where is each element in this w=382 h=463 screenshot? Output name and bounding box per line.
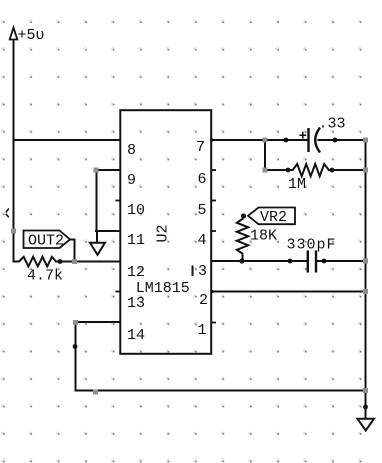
svg-text:7: 7	[196, 139, 205, 156]
svg-text:8: 8	[127, 142, 136, 159]
svg-text:12: 12	[127, 264, 145, 281]
svg-text:2: 2	[199, 292, 208, 309]
svg-text:1M: 1M	[288, 176, 306, 193]
svg-text:11: 11	[127, 232, 145, 249]
svg-text:U2: U2	[155, 224, 172, 242]
svg-text:5: 5	[198, 202, 207, 219]
svg-text:13: 13	[127, 295, 145, 312]
svg-text:4: 4	[198, 232, 207, 249]
svg-text:3: 3	[198, 263, 207, 280]
svg-text:OUT2: OUT2	[28, 233, 64, 250]
svg-text:1: 1	[198, 322, 207, 339]
svg-text:14: 14	[127, 327, 145, 344]
svg-text:10: 10	[127, 202, 145, 219]
svg-text:9: 9	[127, 172, 136, 189]
svg-text:.33: .33	[319, 116, 346, 133]
svg-text:4.7k: 4.7k	[27, 267, 63, 284]
svg-text:6: 6	[198, 171, 207, 188]
svg-text:330pF: 330pF	[287, 237, 337, 254]
svg-text:LM1815: LM1815	[136, 280, 190, 297]
svg-text:18K: 18K	[250, 228, 277, 245]
svg-text:+5υ: +5υ	[18, 27, 45, 44]
svg-text:VR2: VR2	[260, 209, 287, 226]
